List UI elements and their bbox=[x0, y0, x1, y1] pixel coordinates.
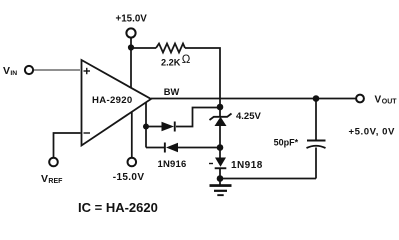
svg-text:-15.0V: -15.0V bbox=[113, 172, 145, 183]
svg-text:IC = HA-2620: IC = HA-2620 bbox=[78, 200, 158, 215]
svg-text:V: V bbox=[41, 173, 48, 185]
svg-text:REF: REF bbox=[48, 178, 63, 185]
svg-text:50pF*: 50pF* bbox=[274, 137, 299, 147]
svg-text:Ω: Ω bbox=[182, 54, 191, 66]
svg-text:HA-2920: HA-2920 bbox=[92, 95, 133, 106]
svg-text:+15.0V: +15.0V bbox=[116, 14, 148, 25]
svg-text:BW: BW bbox=[164, 87, 180, 97]
svg-text:1N918: 1N918 bbox=[231, 160, 263, 171]
svg-text:2.2K: 2.2K bbox=[161, 57, 181, 67]
svg-text:+5.0V, 0V: +5.0V, 0V bbox=[349, 127, 396, 138]
svg-text:V: V bbox=[375, 95, 382, 106]
svg-text:4.25V: 4.25V bbox=[236, 111, 261, 122]
svg-text:V: V bbox=[3, 65, 10, 77]
svg-text:1N916: 1N916 bbox=[158, 159, 187, 170]
svg-text:IN: IN bbox=[10, 70, 17, 77]
svg-text:OUT: OUT bbox=[382, 98, 398, 105]
